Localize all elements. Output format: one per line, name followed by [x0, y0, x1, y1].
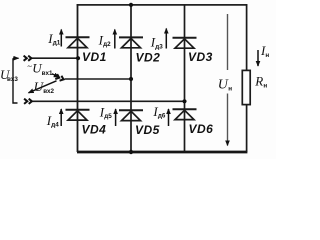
current arrow Id6: [168, 109, 170, 126]
label Id5: [99, 105, 112, 121]
label Id1: [47, 31, 60, 47]
svg-text:вх1: вх1: [42, 70, 53, 77]
svg-text:н: н: [228, 86, 232, 93]
node phase2/leg2 junction: [129, 77, 133, 81]
diode VD5: [119, 110, 143, 120]
input arrow chevrons phase 3: [24, 99, 32, 104]
leader arrow from Uin1 to phase 2: [52, 74, 59, 77]
svg-text:н: н: [265, 52, 269, 59]
wire input phase 1: [31, 57, 78, 59]
node leg2/bottom bus junction: [129, 150, 133, 154]
diode VD6: [173, 109, 197, 119]
label Id6: [152, 104, 165, 120]
diode VD2: [119, 37, 143, 47]
label IN: [260, 43, 269, 59]
label Id3: [150, 34, 163, 50]
current arrow Id5: [115, 109, 117, 126]
svg-text:R: R: [254, 74, 263, 89]
label UN: [216, 76, 235, 93]
svg-text:д4: д4: [51, 122, 59, 129]
input arrow chevrons phase 2: [55, 74, 64, 82]
label Id2: [98, 33, 111, 49]
node phase1/leg1 junction: [76, 56, 80, 60]
svg-text:VD1: VD1: [82, 50, 107, 64]
resistor RN (load): [242, 70, 250, 104]
svg-text:д1: д1: [53, 40, 61, 47]
svg-text:VD5: VD5: [135, 123, 160, 137]
wire input phase 2: [65, 78, 132, 80]
node phase3/leg3 junction: [182, 99, 186, 103]
wire leg 1 (VD1/VD4 column): [77, 4, 79, 152]
svg-text:VD3: VD3: [188, 50, 213, 64]
svg-text:VD2: VD2: [136, 50, 161, 64]
wire input phase 3: [31, 100, 185, 102]
current arrow Id1: [60, 30, 62, 47]
wire leg 3 (VD3/VD6 column): [184, 5, 186, 152]
svg-text:д5: д5: [104, 113, 112, 120]
wire top bus: [77, 4, 248, 6]
leader arrow from phase 2 toward bracket: [29, 81, 57, 93]
label RN: [254, 74, 267, 90]
diode VD1: [66, 37, 90, 47]
svg-text:н: н: [263, 83, 267, 90]
voltage arrow UN (output voltage): [227, 14, 229, 146]
current arrow Id3: [165, 29, 167, 49]
node leg2/top bus junction: [129, 3, 133, 7]
current arrow Id4: [60, 109, 62, 126]
svg-text:вх2: вх2: [43, 88, 54, 95]
svg-text:д2: д2: [103, 41, 111, 48]
input arrow chevrons phase 1: [24, 56, 32, 61]
wire bottom bus: [77, 151, 247, 154]
svg-text:д6: д6: [158, 113, 166, 120]
svg-text:VD4: VD4: [82, 123, 107, 137]
label Id4: [46, 113, 59, 129]
diode VD4: [66, 110, 90, 120]
svg-text:VD6: VD6: [189, 122, 214, 136]
svg-text:U: U: [218, 78, 229, 93]
current arrow Id2: [114, 30, 116, 49]
wire leg 2 (VD2/VD5 column): [130, 5, 132, 152]
label Uin3: [0, 67, 18, 83]
wire right side (load branch): [246, 4, 248, 152]
current arrow IN (load current): [257, 50, 259, 66]
label Uin2: [34, 79, 55, 95]
svg-text:д3: д3: [155, 44, 163, 51]
label Uin1 with tilde: [27, 61, 53, 77]
diode VD3: [173, 38, 197, 48]
bracket Uin3 (voltage between phase 1 and phase 3): [13, 58, 19, 103]
svg-text:вх3: вх3: [7, 76, 18, 83]
